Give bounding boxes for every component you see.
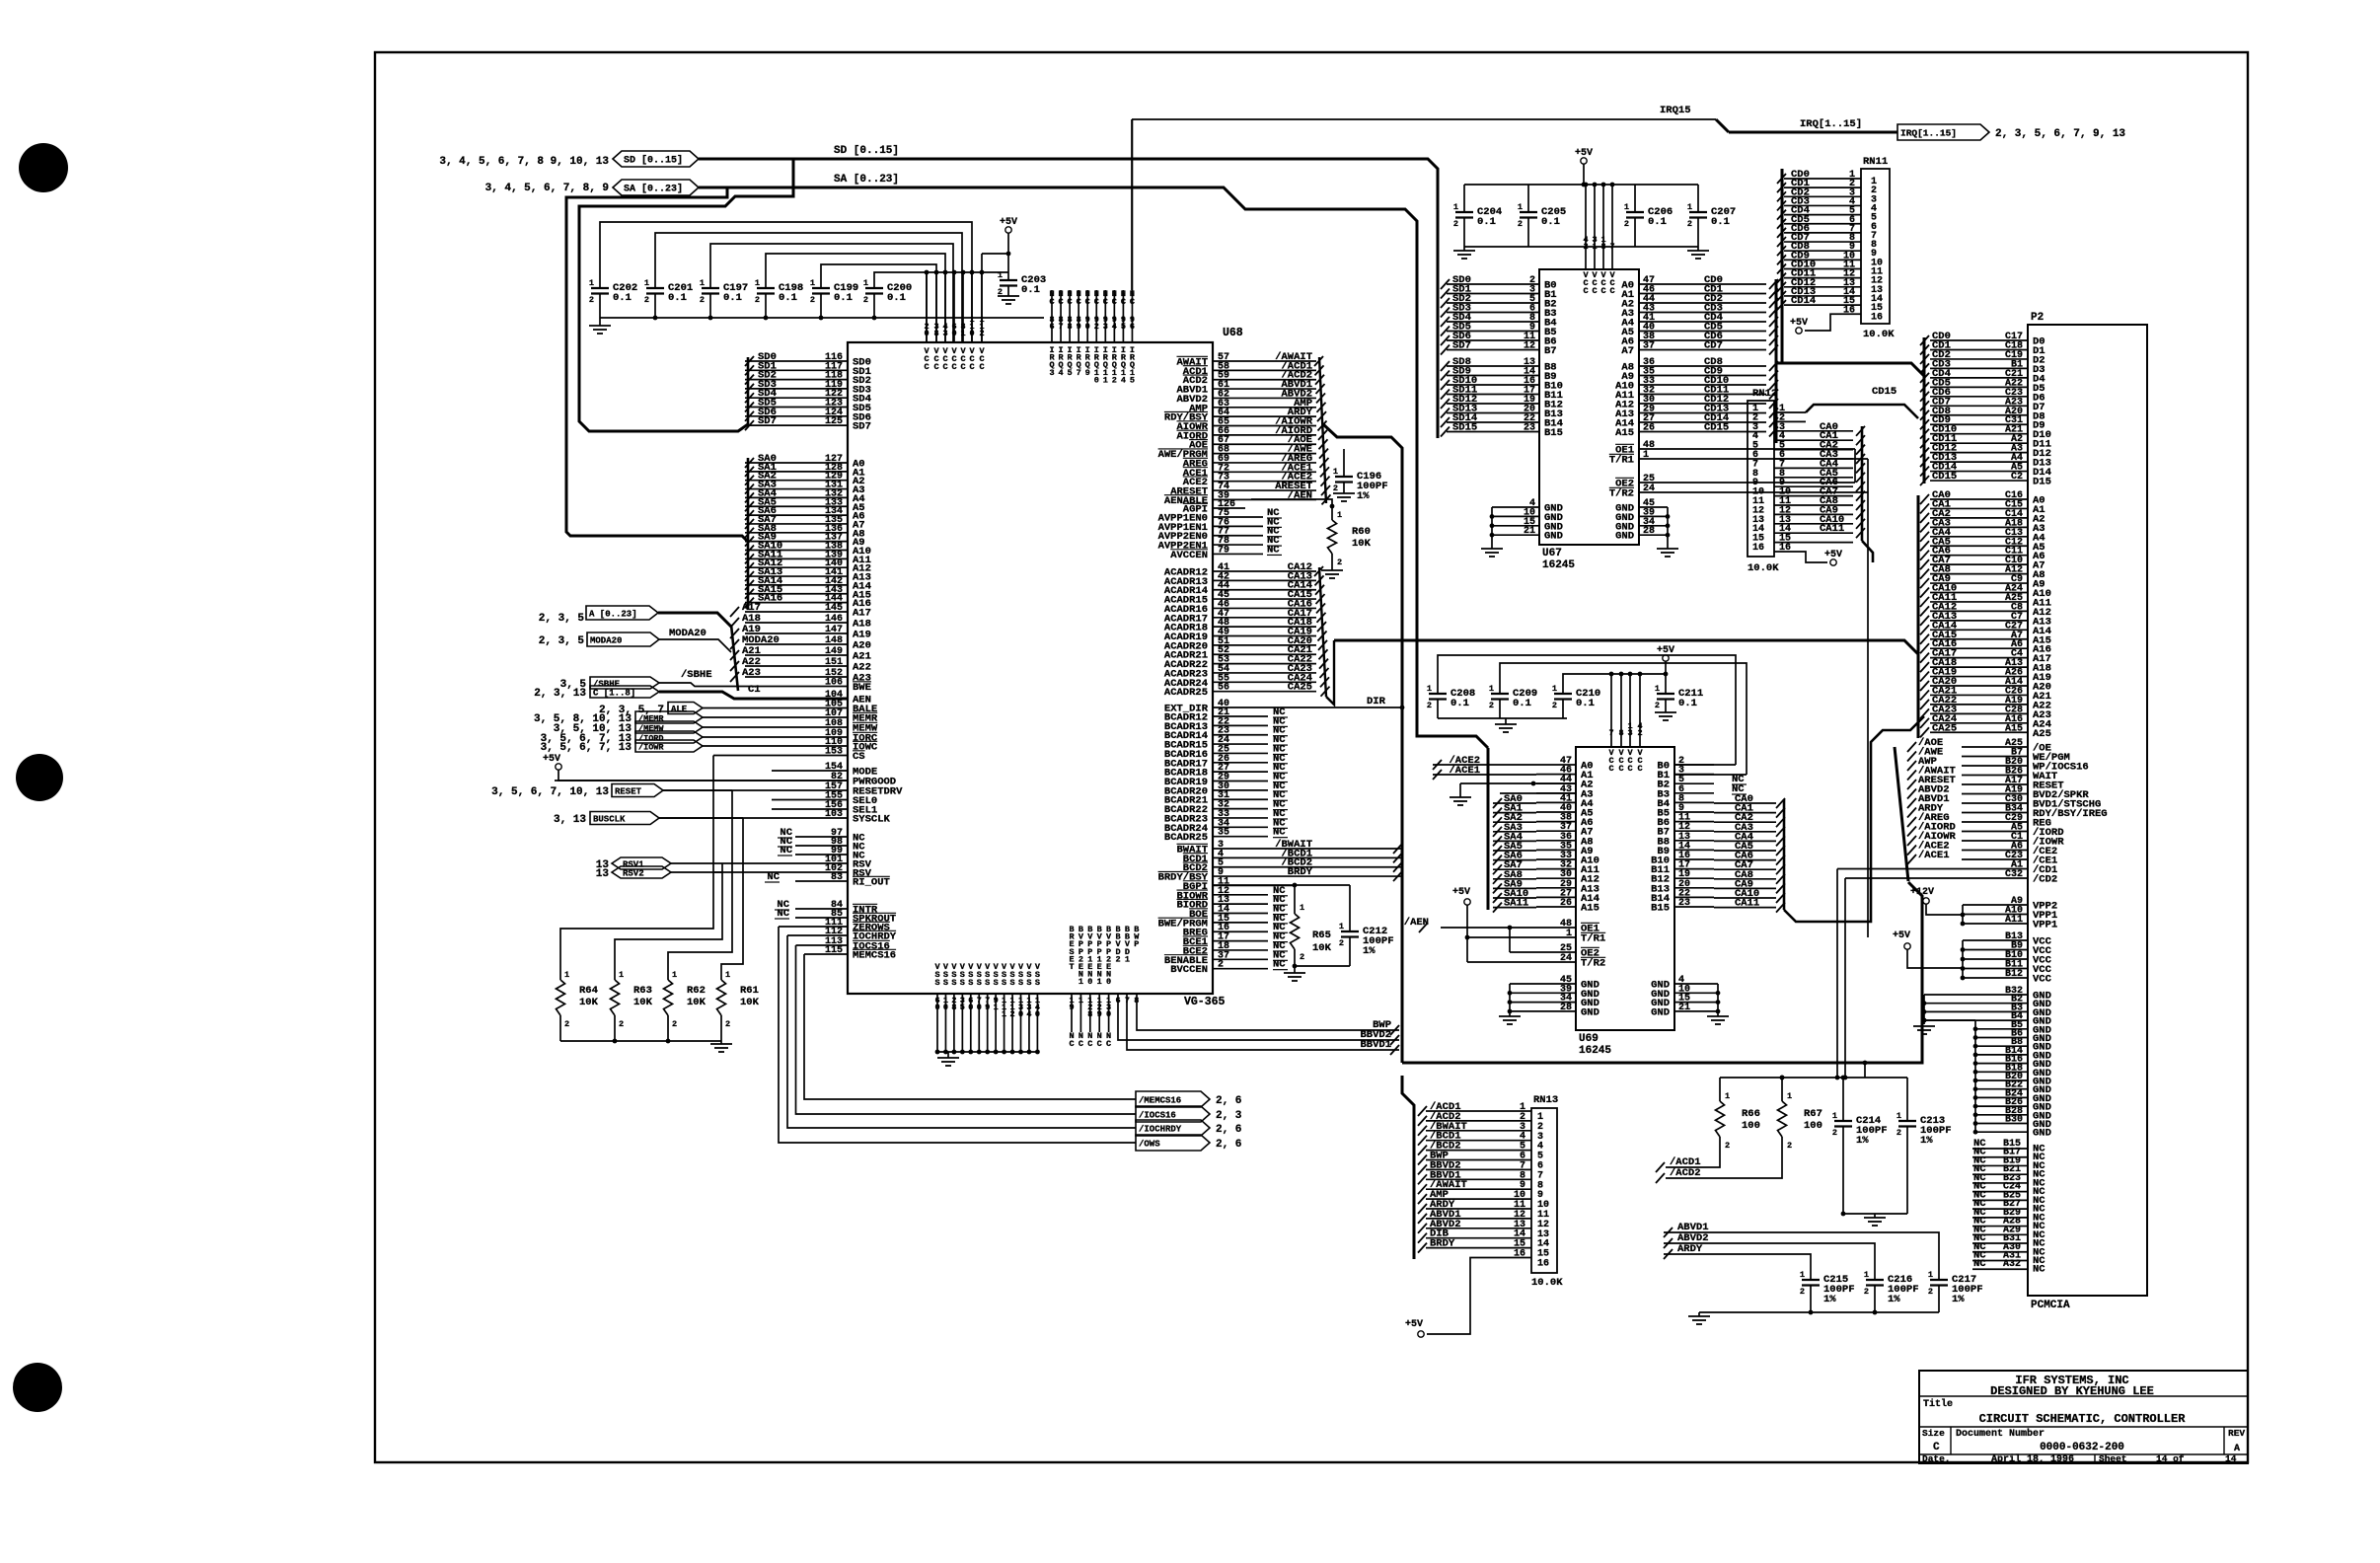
bus tag SD[0..15] — [613, 151, 699, 167]
svg-text:10K: 10K — [633, 997, 653, 1008]
svg-text:C: C — [1097, 1039, 1102, 1049]
svg-text:1: 1 — [619, 970, 624, 980]
wires BWP BBVD2 BBVD1 to bus — [1137, 994, 1399, 1030]
bus A[0..23] wire to fan — [658, 613, 731, 627]
svg-text:21: 21 — [1524, 526, 1535, 537]
svg-text:3, 5, 6, 7, 13: 3, 5, 6, 7, 13 — [541, 742, 632, 754]
punch hole top-left — [19, 143, 68, 192]
svg-text:0.1: 0.1 — [1450, 698, 1469, 709]
bus spine CA12-25 — [1319, 567, 1326, 697]
svg-text:C: C — [1592, 286, 1597, 296]
wire +5V rail for U67 caps — [1464, 184, 1698, 186]
svg-text:1: 1 — [1787, 1091, 1792, 1101]
svg-text:A25: A25 — [2033, 728, 2051, 740]
svg-text:3: 3 — [1627, 728, 1632, 738]
U68 right pins AWAIT group with net labels — [1213, 360, 1316, 362]
U67 GND pins left — [1492, 506, 1539, 508]
ground below C207 — [1697, 247, 1699, 251]
svg-text:28: 28 — [1560, 1003, 1572, 1013]
bus spine CA fan RN12 — [1861, 426, 1864, 541]
ground below C209 — [1505, 718, 1507, 724]
svg-text:RI_OUT: RI_OUT — [853, 877, 890, 889]
svg-text:1: 1 — [1333, 467, 1338, 477]
bus tag /SBHE — [590, 677, 659, 689]
ground below C213 C214 — [1864, 1217, 1886, 1219]
svg-text:12: 12 — [1524, 341, 1535, 352]
svg-text:0: 0 — [1106, 977, 1111, 987]
svg-text:CA25: CA25 — [1288, 682, 1312, 694]
svg-text:SA16: SA16 — [758, 593, 782, 605]
svg-text:A15: A15 — [1615, 427, 1634, 439]
svg-text:Date.: Date. — [1922, 1453, 1951, 1464]
svg-text:1%: 1% — [1856, 1135, 1869, 1147]
ground below U67 right GND — [1657, 548, 1678, 550]
ground below C204 — [1463, 247, 1465, 251]
power +5V at RN11 — [1796, 328, 1802, 334]
svg-text:5: 5 — [1121, 322, 1126, 332]
svg-text:1: 1 — [725, 970, 730, 980]
svg-text:Size: Size — [1922, 1428, 1945, 1439]
svg-text:23: 23 — [1678, 898, 1690, 909]
bus tag BUSCLK — [590, 812, 659, 825]
bus SA branch down to U68 — [566, 187, 748, 542]
svg-text:BRDY: BRDY — [1430, 1238, 1455, 1250]
svg-text:1: 1 — [1427, 684, 1432, 694]
svg-text:/MEMW: /MEMW — [638, 724, 664, 734]
rail with junction dots to +5V — [927, 271, 1008, 273]
svg-text:4: 4 — [1058, 368, 1063, 378]
svg-text:A32: A32 — [2003, 1259, 2021, 1270]
bus tag ALE — [668, 703, 703, 714]
bus IRQ15 from U68 to tag — [1131, 119, 1133, 290]
U68 left pins NC/RSV/RI_OUT group — [795, 836, 848, 838]
svg-text:0.1: 0.1 — [668, 292, 687, 304]
bus spine SD fan U67 — [1437, 176, 1440, 438]
svg-text:RN12: RN12 — [1752, 388, 1777, 400]
svg-text:0: 0 — [1094, 375, 1099, 385]
svg-text:9: 9 — [1077, 322, 1081, 332]
ground below U69 right GND — [1707, 1015, 1729, 1017]
svg-text:NC: NC — [1267, 544, 1280, 556]
svg-text:0: 0 — [934, 1003, 939, 1012]
svg-text:10K: 10K — [687, 997, 707, 1008]
svg-text:10K: 10K — [1352, 538, 1372, 550]
svg-text:C: C — [1077, 297, 1081, 307]
svg-text:1: 1 — [1897, 1111, 1901, 1121]
svg-text:125: 125 — [825, 416, 843, 427]
svg-text:2, 6: 2, 6 — [1216, 1124, 1241, 1136]
bus spine CA fan U69 — [1783, 799, 1786, 910]
svg-text:SYSCLK: SYSCLK — [853, 814, 891, 826]
svg-text:4: 4 — [1026, 1009, 1031, 1019]
svg-text:14 of: 14 of — [2156, 1453, 2185, 1464]
U68 left pins AEN/BALE/MEMR/MEMW/IORC/IOWC/CS — [750, 698, 848, 700]
svg-text:2: 2 — [1687, 219, 1692, 229]
svg-text:C: C — [969, 362, 974, 372]
wire AEN branch to OE2 — [1509, 928, 1511, 952]
svg-text:GND: GND — [1615, 531, 1634, 543]
svg-text:2: 2 — [619, 1019, 624, 1029]
svg-text:T/R2: T/R2 — [1581, 958, 1605, 970]
svg-text:C: C — [951, 362, 956, 372]
svg-text:1: 1 — [1453, 202, 1458, 212]
svg-text:S: S — [1002, 978, 1006, 988]
svg-text:D15: D15 — [2033, 477, 2051, 488]
ground below C196 — [1333, 492, 1355, 494]
svg-text:2: 2 — [1333, 484, 1338, 493]
svg-text:2: 2 — [1518, 219, 1523, 229]
svg-text:VPP1: VPP1 — [2033, 920, 2057, 931]
svg-text:CA25: CA25 — [1932, 722, 1957, 734]
svg-text:/ACD2: /ACD2 — [1670, 1167, 1701, 1179]
svg-text:16: 16 — [1871, 312, 1883, 323]
svg-text:153: 153 — [825, 747, 843, 758]
svg-text:NC: NC — [780, 845, 792, 856]
svg-text:1: 1 — [1592, 242, 1597, 252]
svg-text:C: C — [979, 362, 984, 372]
svg-text:1%: 1% — [1920, 1135, 1933, 1147]
svg-text:0: 0 — [1018, 1009, 1023, 1019]
svg-text:R64: R64 — [579, 985, 598, 997]
svg-text:C: C — [1049, 297, 1054, 307]
svg-text:1: 1 — [1002, 1009, 1006, 1019]
svg-text:0.1: 0.1 — [1678, 698, 1697, 709]
bus tag MODA20 — [587, 633, 659, 646]
svg-text:ACADR25: ACADR25 — [1164, 687, 1208, 699]
bus tag RSV2 — [612, 866, 671, 878]
U69 GND pins right — [1674, 983, 1718, 985]
svg-text:C: C — [1103, 297, 1108, 307]
IC U67 16245 body — [1539, 269, 1639, 545]
bus tag /MEMR — [635, 711, 703, 723]
svg-text:SD7: SD7 — [853, 421, 871, 433]
svg-text:1%: 1% — [1888, 1294, 1900, 1305]
svg-text:2: 2 — [1800, 1287, 1805, 1297]
svg-text:U69: U69 — [1579, 1033, 1599, 1045]
svg-text:S: S — [1018, 978, 1023, 988]
svg-text:5: 5 — [1068, 368, 1073, 378]
wire A17-A23 tag fan spine — [731, 625, 738, 691]
bus tag /MEMCS16 — [1136, 1091, 1210, 1107]
U69 GND pins left — [1510, 983, 1576, 985]
svg-text:C: C — [1094, 297, 1099, 307]
svg-text:April 18, 1996: April 18, 1996 — [1991, 1453, 2074, 1465]
svg-text:RESET: RESET — [615, 787, 642, 797]
svg-text:C: C — [1637, 764, 1642, 774]
svg-text:10.0K: 10.0K — [1748, 562, 1779, 574]
svg-text:0.1: 0.1 — [1541, 216, 1560, 228]
U68 left pins INTR group — [795, 908, 848, 910]
capacitor C209 0.1 — [1491, 693, 1509, 695]
resistor R61 10K — [717, 980, 726, 1015]
wires to bottom tags — [804, 954, 1136, 1099]
U68 top pins IRQ columns (NC) — [1051, 290, 1053, 342]
svg-text:0.1: 0.1 — [1021, 284, 1040, 296]
bus CD to P2 connector — [1776, 363, 1924, 376]
svg-text:0: 0 — [1085, 322, 1090, 332]
svg-text:P2: P2 — [2031, 312, 2044, 324]
svg-text:0.1: 0.1 — [834, 292, 853, 304]
wire VSS bottom rail — [937, 1051, 1037, 1053]
ground below C215 rail — [1688, 1315, 1710, 1317]
svg-text:2: 2 — [810, 295, 815, 305]
capacitor C204 0.1 — [1463, 185, 1465, 212]
svg-text:37: 37 — [1643, 341, 1655, 352]
svg-text:100: 100 — [1742, 1120, 1760, 1132]
svg-text:8: 8 — [951, 1003, 956, 1012]
svg-text:CA11: CA11 — [1820, 523, 1844, 535]
svg-text:RN13: RN13 — [1533, 1094, 1558, 1106]
svg-text:T: T — [1069, 962, 1074, 972]
svg-text:2, 3, 5: 2, 3, 5 — [539, 613, 585, 625]
ground below cap bank — [589, 325, 611, 327]
svg-text:A [0..23]: A [0..23] — [589, 610, 637, 620]
decoupling loop wires from cap bank — [600, 222, 972, 342]
svg-text:S: S — [985, 978, 990, 988]
svg-text:5: 5 — [1130, 375, 1135, 385]
svg-text:C: C — [942, 362, 947, 372]
wire AEN net to R60 — [1251, 499, 1332, 520]
svg-text:0.1: 0.1 — [1576, 698, 1595, 709]
svg-text:A11: A11 — [2005, 915, 2023, 926]
svg-text:2: 2 — [1218, 960, 1224, 971]
svg-text:S: S — [1035, 978, 1040, 988]
svg-text:10.0K: 10.0K — [1863, 329, 1895, 340]
svg-text:PCMCIA: PCMCIA — [2031, 1300, 2070, 1311]
U68 right pins BCADR12-25 NC — [1213, 715, 1268, 717]
svg-text:10.0K: 10.0K — [1531, 1277, 1563, 1289]
svg-text:13: 13 — [596, 868, 610, 880]
capacitor C196 100PF — [1343, 449, 1345, 477]
svg-text:24: 24 — [1643, 484, 1655, 494]
svg-text:IRQ[1..15]: IRQ[1..15] — [1800, 118, 1862, 130]
svg-text:2: 2 — [1427, 701, 1432, 710]
svg-text:56: 56 — [1218, 683, 1229, 694]
capacitor C207 0.1 — [1697, 185, 1699, 212]
svg-text:C: C — [1087, 1039, 1092, 1049]
bus CA from U69 to P2 — [1784, 716, 1924, 922]
svg-text:MODA20: MODA20 — [669, 628, 707, 639]
svg-text:B30: B30 — [2005, 1115, 2023, 1126]
svg-text:1: 1 — [1655, 684, 1660, 694]
svg-text:MODA20: MODA20 — [590, 636, 622, 646]
U67 right pins A0-15 to CD0-15 — [1639, 283, 1766, 285]
bus tag /MEMW — [635, 721, 703, 733]
svg-text:83: 83 — [831, 872, 843, 883]
bus tag A[0..23] — [586, 606, 658, 620]
svg-text:C: C — [1078, 1039, 1083, 1049]
bus spine A-side signals — [1319, 357, 1326, 503]
svg-text:Document Number: Document Number — [1956, 1428, 2045, 1440]
power +5V at C203 — [1005, 227, 1011, 233]
P2 NC pins — [1972, 1148, 2028, 1150]
svg-text:26: 26 — [1643, 423, 1655, 434]
wire rail above R66 R67 — [1720, 1077, 1907, 1079]
svg-text:S: S — [968, 978, 973, 988]
svg-text:2: 2 — [589, 295, 594, 305]
ground below C203 — [998, 295, 1019, 297]
U68 left pins SD0-SD7 — [745, 360, 848, 362]
svg-text:CD15: CD15 — [1704, 422, 1729, 434]
svg-text:2, 3, 5, 6, 7, 9, 13: 2, 3, 5, 6, 7, 9, 13 — [1995, 128, 2125, 140]
svg-text:BRDY: BRDY — [1288, 866, 1313, 878]
svg-text:SD7: SD7 — [1452, 340, 1471, 352]
svg-text:/CD2: /CD2 — [2033, 874, 2057, 886]
wire C215-C217 bottom rail — [1810, 1286, 1812, 1313]
svg-text:2: 2 — [1624, 219, 1629, 229]
IC U69 16245 body — [1576, 747, 1674, 1030]
svg-text:R63: R63 — [633, 985, 652, 997]
U68 bottom pins VSS columns — [936, 994, 938, 1052]
svg-text:CS: CS — [853, 751, 865, 763]
svg-text:0.1: 0.1 — [1711, 216, 1730, 228]
svg-text:2: 2 — [1655, 701, 1660, 710]
bus horizontal to P2 area — [1402, 882, 1922, 1063]
svg-text:1: 1 — [1725, 1091, 1730, 1101]
svg-text:T/R1: T/R1 — [1609, 455, 1634, 467]
svg-text:2: 2 — [672, 1019, 677, 1029]
bus tag /IOWR — [635, 740, 703, 752]
svg-text:4: 4 — [1121, 375, 1126, 385]
svg-text:DIR: DIR — [1367, 696, 1386, 707]
svg-text:1: 1 — [998, 270, 1003, 280]
svg-text:100: 100 — [1804, 1120, 1822, 1132]
bus spine CD fan RN11 — [1781, 169, 1784, 363]
U67 GND pins right — [1639, 506, 1668, 508]
wire nested rails for U69 caps — [1438, 655, 1736, 765]
wire C214 C213 ground rail — [1842, 1127, 1844, 1215]
svg-text:16: 16 — [1843, 305, 1855, 316]
svg-text:1: 1 — [644, 278, 649, 288]
svg-text:A7: A7 — [1621, 345, 1634, 357]
svg-text:CD7: CD7 — [1704, 340, 1723, 352]
bus tag SA[0..23] — [613, 180, 699, 195]
svg-text:2: 2 — [1864, 1287, 1869, 1297]
svg-text:7: 7 — [1058, 322, 1063, 332]
svg-text:R66: R66 — [1742, 1108, 1760, 1120]
U68 left pins A0-A23 BWE — [745, 462, 848, 464]
U68 right pins ACADR12-25 with CA nets — [1213, 570, 1316, 572]
svg-text:2: 2 — [1009, 1009, 1014, 1019]
capacitor C215 100PF — [1802, 1279, 1820, 1281]
svg-text:S: S — [1009, 978, 1014, 988]
svg-text:1: 1 — [589, 278, 594, 288]
svg-text:C: C — [1933, 1442, 1940, 1453]
svg-text:21: 21 — [1678, 1003, 1690, 1013]
svg-text:Title: Title — [1923, 1398, 1953, 1410]
svg-text:1: 1 — [1864, 1270, 1869, 1280]
svg-text:28: 28 — [1643, 526, 1655, 537]
svg-text:RSV2: RSV2 — [623, 869, 644, 879]
svg-text:+5V: +5V — [1575, 148, 1593, 159]
bus diagonal spine for A-side fan at P2 — [1895, 747, 1908, 881]
wire SD stub bus spine for U68 — [747, 357, 750, 426]
wires B0 B1 to vertical risers — [1674, 764, 1736, 766]
svg-text:S: S — [994, 978, 999, 988]
svg-text:0.1: 0.1 — [1477, 216, 1496, 228]
svg-text:146: 146 — [825, 614, 843, 625]
svg-text:S: S — [943, 978, 948, 988]
bus RN13 feed — [1402, 1076, 1414, 1259]
svg-text:VCC: VCC — [2033, 974, 2052, 986]
svg-text:1: 1 — [1800, 1270, 1805, 1280]
svg-text:U68: U68 — [1223, 327, 1243, 339]
svg-text:2: 2 — [1725, 1141, 1730, 1151]
capacitor bank C202 C201 C197 C198 C199 C200 — [591, 287, 609, 289]
svg-text:145: 145 — [825, 603, 843, 614]
svg-text:2, 6: 2, 6 — [1216, 1139, 1241, 1151]
ground below C211 — [1665, 700, 1667, 713]
resistor R63 10K — [611, 980, 620, 1015]
bus SD branch down to U68 — [579, 159, 793, 431]
svg-text:CIRCUIT SCHEMATIC, CONTROLLER: CIRCUIT SCHEMATIC, CONTROLLER — [1979, 1412, 2187, 1426]
U69 right pins B0-B15 — [1674, 764, 1714, 766]
svg-text:1: 1 — [1832, 1111, 1837, 1121]
svg-text:S: S — [934, 978, 939, 988]
svg-text:IRQ[1..15]: IRQ[1..15] — [1900, 128, 1957, 139]
svg-text:S: S — [960, 978, 965, 988]
svg-text:C: C — [933, 362, 938, 372]
bus tag /IORD — [635, 731, 703, 743]
svg-text:16: 16 — [1514, 1249, 1525, 1260]
svg-text:2: 2 — [1112, 375, 1117, 385]
bus tag /IOCHRDY — [1136, 1120, 1210, 1136]
wire RESET to RESETDRV — [663, 789, 691, 791]
svg-text:1: 1 — [1643, 450, 1649, 461]
capacitor C205 0.1 — [1527, 185, 1529, 212]
ground below P2 GND pins — [1913, 1025, 1935, 1027]
svg-text:16: 16 — [1752, 543, 1764, 554]
svg-text:NC: NC — [2033, 1264, 2045, 1276]
svg-text:0.1: 0.1 — [779, 292, 797, 304]
svg-text:0.1: 0.1 — [613, 292, 632, 304]
svg-text:0.1: 0.1 — [1648, 216, 1667, 228]
power +5V at RN12 — [1830, 559, 1836, 565]
svg-text:IRQ15: IRQ15 — [1660, 105, 1691, 116]
svg-text:P: P — [1134, 939, 1139, 949]
svg-text:C: C — [1130, 297, 1135, 307]
svg-text:1: 1 — [1337, 510, 1342, 520]
svg-text:R62: R62 — [687, 985, 706, 997]
P2 control pins with A-side nets — [1962, 746, 2028, 748]
bus tag IRQ[1..15] — [1897, 124, 1989, 140]
svg-text:S: S — [977, 978, 982, 988]
svg-text:7: 7 — [1077, 368, 1081, 378]
sheet border frame — [375, 52, 2248, 1462]
ground below R65 C212 — [1284, 972, 1305, 974]
svg-text:C [1..8]: C [1..8] — [593, 689, 635, 699]
wire OE nets down to U69 area — [1854, 449, 1856, 483]
svg-text:1: 1 — [700, 278, 705, 288]
svg-text:U67: U67 — [1542, 548, 1562, 559]
ground below R60 — [1321, 569, 1343, 571]
svg-text:A15: A15 — [1581, 903, 1599, 915]
U68 right pin EXT_DIR with DIR net — [1213, 707, 1402, 708]
svg-text:1: 1 — [1552, 684, 1557, 694]
svg-text:C: C — [1121, 297, 1126, 307]
svg-text:2, 3: 2, 3 — [1216, 1110, 1242, 1122]
svg-text:CD15: CD15 — [1932, 471, 1957, 483]
svg-text:S: S — [1026, 978, 1031, 988]
svg-text:GND: GND — [1651, 1006, 1670, 1018]
svg-text:2: 2 — [644, 295, 649, 305]
resistor R66 100 — [1719, 1078, 1721, 1101]
svg-text:C: C — [1583, 286, 1588, 296]
svg-text:A23: A23 — [742, 667, 761, 679]
svg-text:BVCCEN: BVCCEN — [1170, 964, 1208, 976]
svg-text:8: 8 — [1068, 322, 1073, 332]
svg-text:2: 2 — [1583, 242, 1588, 252]
